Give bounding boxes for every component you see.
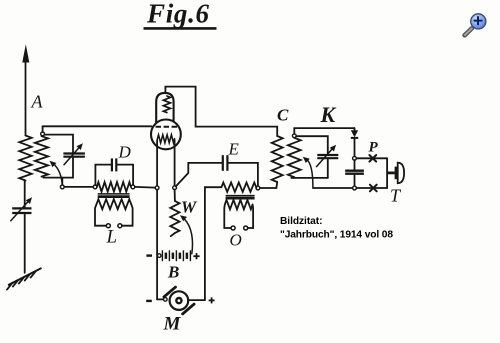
machine plus sign bbox=[209, 299, 215, 301]
node at secondary top bbox=[41, 132, 45, 136]
label T bbox=[390, 186, 402, 206]
label C bbox=[277, 106, 289, 125]
svg-text:Bildzitat:: Bildzitat: bbox=[280, 216, 323, 227]
L core bars bbox=[98, 193, 130, 195]
blocking capacitor plates bbox=[345, 170, 364, 172]
wire secondary to variable cap K bbox=[296, 136, 328, 154]
machine minus sign bbox=[146, 300, 152, 302]
wire grid horizontal to tube bbox=[43, 125, 152, 127]
node O right bbox=[256, 186, 260, 190]
battery minus sign bbox=[146, 254, 152, 256]
coil antenna secondary bbox=[35, 136, 48, 176]
svg-text:C: C bbox=[277, 106, 289, 125]
label O bbox=[230, 231, 242, 250]
label B bbox=[167, 263, 179, 282]
variable capacitor (antenna series) plates bbox=[12, 207, 31, 209]
W free end tail bbox=[171, 233, 175, 236]
wire drop to node bbox=[61, 178, 63, 185]
wire left rail bbox=[156, 190, 158, 300]
label M bbox=[163, 314, 182, 335]
antenna wire bbox=[25, 58, 27, 136]
label P bbox=[369, 140, 379, 156]
wire antenna to ground cap bbox=[24, 181, 26, 208]
diode bar bbox=[351, 137, 358, 139]
label E bbox=[228, 140, 240, 159]
label W bbox=[181, 198, 198, 217]
machine brush upper-left bbox=[164, 287, 176, 297]
node filament left bbox=[155, 186, 159, 190]
tube anode zigzag bbox=[163, 96, 170, 113]
battery terminal circle bbox=[157, 254, 161, 258]
L terminal right bbox=[118, 224, 122, 228]
W wiper arrow to battery plus bbox=[184, 218, 193, 254]
label K bbox=[320, 102, 337, 127]
wire var-cap loop top bbox=[45, 135, 74, 153]
wire O left vertical from M bbox=[205, 187, 222, 300]
D loop left side bbox=[95, 165, 111, 185]
filament lead right bbox=[174, 140, 176, 186]
capacitor D plates bbox=[111, 158, 113, 171]
antenna arrowhead bbox=[22, 44, 29, 62]
machine brush lower-right bbox=[183, 304, 195, 314]
coil L grid winding bbox=[97, 182, 131, 192]
wire K tank bottom bbox=[291, 177, 328, 179]
O terminal right bbox=[244, 226, 248, 230]
capacitor E plates bbox=[222, 155, 224, 171]
label D bbox=[118, 143, 132, 162]
coil L secondary winding bbox=[97, 199, 132, 209]
node C secondary top bbox=[292, 134, 296, 138]
wire node to filament lead bbox=[135, 186, 155, 189]
wire cap to ground bbox=[24, 214, 26, 273]
svg-text:W: W bbox=[181, 198, 198, 217]
O secondary left drop bbox=[224, 205, 231, 228]
rheostat W zigzag bbox=[170, 201, 179, 233]
D loop right side bbox=[117, 165, 133, 185]
wire anode to transformer C bbox=[165, 87, 277, 136]
citation text bbox=[280, 216, 393, 241]
svg-text:E: E bbox=[228, 140, 240, 159]
variable capacitor K plates bbox=[317, 154, 338, 156]
wire node P to blocking cap bbox=[354, 160, 356, 169]
variable capacitor K arrow bbox=[317, 148, 334, 167]
wire K top corner down bbox=[354, 128, 356, 130]
contact cross T bbox=[370, 185, 377, 192]
contact cross P bbox=[369, 155, 376, 162]
coil O secondary winding bbox=[225, 200, 253, 209]
node L left bbox=[93, 185, 97, 189]
O terminal left bbox=[231, 226, 235, 230]
svg-text:"Jahrbuch", 1914 vol 08: "Jahrbuch", 1914 vol 08 bbox=[280, 230, 393, 241]
coil O primary winding bbox=[221, 183, 256, 192]
node grid return left bbox=[60, 185, 64, 189]
L terminal left bbox=[106, 224, 110, 228]
title Fig.6 bbox=[146, 0, 210, 29]
wire node P to phone bbox=[356, 157, 387, 159]
battery B cells bbox=[162, 250, 190, 261]
svg-text:D: D bbox=[118, 143, 132, 162]
wire secondary top to grid line bbox=[42, 126, 44, 132]
node L right bbox=[131, 185, 135, 189]
wire node to rheostat W bbox=[174, 190, 176, 201]
L secondary right drop bbox=[122, 204, 133, 226]
O secondary right drop bbox=[248, 205, 253, 228]
wire K loop top bbox=[294, 128, 354, 134]
wire grid return horizontal bbox=[64, 186, 93, 188]
svg-text:A: A bbox=[31, 92, 44, 112]
coil C primary bbox=[272, 136, 283, 182]
phone earpiece dome bbox=[398, 163, 404, 184]
label A bbox=[31, 92, 44, 112]
wire var-cap loop bottom bbox=[43, 158, 73, 178]
svg-text:L: L bbox=[106, 227, 118, 248]
wire node to capacitor E bbox=[176, 163, 222, 186]
magnifier zoom icon bbox=[465, 14, 486, 36]
wire node T to phone bbox=[356, 187, 387, 189]
M terminal circle bbox=[164, 298, 168, 302]
filament lead left bbox=[156, 140, 158, 186]
wire output bottom bbox=[313, 187, 353, 189]
wire to machine left bbox=[157, 298, 163, 300]
node P bbox=[353, 156, 357, 160]
wire C secondary bottom bbox=[292, 176, 295, 179]
svg-text:M: M bbox=[163, 314, 182, 335]
L secondary left drop bbox=[95, 204, 106, 226]
series cap arrow bbox=[11, 201, 29, 221]
svg-text:O: O bbox=[230, 231, 242, 250]
tube bulb circle bbox=[151, 119, 181, 149]
tube envelope capsule bbox=[156, 93, 173, 128]
wire diode to node P bbox=[354, 138, 356, 157]
svg-text:T: T bbox=[390, 186, 402, 206]
machine M body bbox=[170, 291, 189, 310]
svg-text:Fig.6: Fig.6 bbox=[146, 0, 210, 29]
wire blocking cap to node T bbox=[354, 175, 356, 186]
svg-text:B: B bbox=[167, 263, 179, 282]
wire machine right bbox=[188, 299, 205, 301]
node filament right bbox=[173, 186, 177, 190]
diode detector triangle bbox=[351, 130, 358, 137]
phone flange bbox=[395, 167, 398, 180]
variable capacitor arrow bbox=[64, 147, 80, 165]
coil tap wiper arrow bbox=[54, 164, 63, 185]
tube filament zigzag bbox=[157, 135, 174, 143]
ground symbol bbox=[7, 268, 41, 289]
wire O primary to node bbox=[255, 186, 257, 189]
phone vertical bbox=[386, 158, 388, 188]
variable capacitor (antenna secondary tuning) plates bbox=[63, 152, 85, 154]
phone stem bbox=[387, 171, 395, 174]
K coil tap wiper arrow bbox=[307, 160, 313, 187]
svg-text:P: P bbox=[369, 140, 379, 156]
node T bbox=[353, 186, 357, 190]
machine M axle bbox=[176, 298, 181, 303]
wire C primary bottom bbox=[260, 182, 277, 188]
O core bars bbox=[226, 195, 255, 197]
svg-text:K: K bbox=[320, 102, 337, 127]
coil antenna primary bbox=[19, 136, 31, 181]
battery plus sign bbox=[193, 255, 199, 257]
coil C secondary bbox=[288, 138, 301, 177]
wire E to node O bbox=[229, 163, 258, 186]
label L bbox=[106, 227, 118, 248]
wire variable cap K bottom bbox=[327, 159, 329, 178]
tube grid dashed line bbox=[156, 126, 179, 128]
